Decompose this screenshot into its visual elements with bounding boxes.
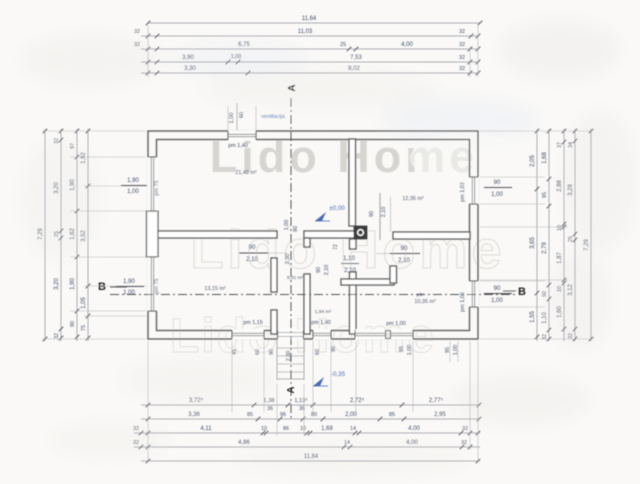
dimension chain bottom 5 (11,64) (141, 454, 480, 463)
svg-text:3,90: 3,90 (182, 55, 194, 61)
svg-text:2,79: 2,79 (542, 242, 548, 254)
svg-text:32: 32 (459, 42, 465, 48)
top window dimension lines (228, 103, 256, 130)
window mullion bottom-right (386, 331, 391, 339)
svg-text:10: 10 (557, 225, 563, 231)
svg-text:72: 72 (333, 244, 339, 250)
door D1 dimension line (268, 252, 287, 254)
left extension lines (42, 131, 146, 339)
svg-text:1,60: 1,60 (557, 306, 563, 318)
svg-text:8,02: 8,02 (348, 66, 360, 72)
window top (1,00 ventilation) (228, 130, 256, 141)
door frame line (hall to top-right room) (390, 197, 392, 232)
svg-text:80: 80 (311, 412, 317, 418)
svg-text:45: 45 (232, 349, 238, 355)
svg-text:1,00: 1,00 (127, 189, 139, 195)
left window 2 label (1,90/1,00) (116, 279, 144, 296)
svg-text:ventilacija: ventilacija (261, 114, 285, 120)
dimension chain left C (97/1,90/1,62/1,90/90) (70, 129, 79, 341)
interior wall V2 upper stub (corridor east wall) (304, 238, 310, 247)
door D2 label (90/2,10) (390, 246, 420, 264)
interior wall H1b (hall north wall) (304, 231, 356, 238)
svg-text:1,10: 1,10 (542, 312, 548, 324)
svg-text:2,05: 2,05 (530, 155, 536, 167)
svg-text:pm 1,15: pm 1,15 (243, 320, 262, 326)
svg-text:13,15 m²: 13,15 m² (204, 286, 225, 292)
svg-text:1,00: 1,00 (284, 220, 290, 231)
left wall pier between windows (147, 211, 159, 257)
svg-text:97: 97 (70, 143, 76, 149)
svg-text:90: 90 (401, 246, 408, 252)
svg-text:90: 90 (316, 267, 322, 273)
level marker -0,35 (blue) (313, 371, 346, 386)
entry threshold lines (278, 333, 304, 337)
svg-text:10: 10 (557, 286, 563, 292)
svg-text:1,94 m²: 1,94 m² (315, 309, 332, 315)
svg-text:85: 85 (399, 346, 405, 352)
interior wall V4 (hall/bottom-right door wall) (390, 266, 397, 283)
svg-text:96: 96 (280, 412, 286, 418)
svg-text:1,90: 1,90 (70, 278, 76, 290)
svg-text:86: 86 (283, 426, 289, 432)
svg-text:1,00: 1,00 (229, 113, 235, 124)
svg-text:11,03: 11,03 (298, 29, 313, 35)
svg-text:1,38: 1,38 (264, 398, 275, 404)
svg-text:2,88: 2,88 (557, 180, 563, 192)
svg-text:-0,35: -0,35 (331, 371, 346, 378)
window left lower (1,90/1,00) (147, 257, 158, 311)
svg-text:3,12: 3,12 (568, 284, 574, 296)
right window 2 label (90/1,00) (484, 286, 512, 304)
svg-text:1,87: 1,87 (557, 252, 563, 264)
svg-text:95: 95 (445, 347, 451, 353)
interior wall V2 lower (corridor east wall) (304, 274, 310, 334)
svg-text:9,31 m²: 9,31 m² (287, 275, 304, 281)
svg-text:pm 75: pm 75 (154, 278, 160, 293)
svg-text:4,00: 4,00 (401, 42, 413, 48)
level marker +-0,00 (blue) (315, 205, 345, 221)
svg-text:32: 32 (133, 426, 139, 432)
svg-text:pm 1,03: pm 1,03 (460, 182, 466, 202)
svg-text:32: 32 (459, 66, 465, 72)
svg-text:90: 90 (494, 286, 501, 292)
dimension chain bottom 4 (133, 440, 480, 449)
top extension line right outer (477, 25, 479, 77)
svg-text:10: 10 (261, 426, 267, 432)
door D2 dimension line (376, 253, 390, 255)
svg-text:1,55: 1,55 (530, 311, 536, 323)
svg-text:A: A (287, 84, 298, 91)
svg-text:32: 32 (133, 440, 139, 446)
svg-text:1,00: 1,00 (231, 54, 242, 60)
svg-text:2,77⁵: 2,77⁵ (429, 397, 444, 404)
svg-text:6,75: 6,75 (238, 42, 250, 48)
svg-text:1,05: 1,05 (81, 297, 87, 309)
svg-text:90: 90 (293, 226, 299, 232)
window bottom wc (pm 1,40) (313, 329, 331, 340)
svg-text:60: 60 (239, 112, 245, 118)
dimension chain right 5 (7,29) (584, 129, 593, 342)
svg-text:2,10: 2,10 (381, 207, 387, 218)
svg-text:pm 1,40: pm 1,40 (228, 143, 247, 149)
svg-text:95: 95 (542, 192, 548, 198)
exterior wall outer outline (148, 131, 478, 339)
svg-text:32: 32 (462, 426, 468, 432)
interior wall V1 lower (corridor west wall) (271, 310, 277, 334)
section line A (vertical dash-dot) (290, 98, 292, 420)
dimension chain right 1 (2,05/3,65/1,55) (530, 129, 539, 341)
section label B left stub (110, 286, 127, 288)
svg-text:32: 32 (134, 42, 140, 48)
svg-text:3,36: 3,36 (188, 412, 200, 418)
svg-text:2,95: 2,95 (434, 412, 446, 418)
svg-text:85: 85 (389, 412, 395, 418)
svg-text:1,68: 1,68 (542, 152, 548, 164)
dimension chain top 3 (6,75/25/4,00) (134, 42, 480, 51)
interior wall V1 upper (corridor west wall) (271, 258, 277, 292)
svg-text:A: A (286, 386, 297, 393)
svg-text:2,30: 2,30 (285, 254, 291, 265)
entry steps (277, 339, 304, 380)
svg-text:B: B (518, 286, 526, 298)
svg-text:7,53: 7,53 (350, 55, 362, 61)
svg-text:32: 32 (459, 55, 465, 61)
right extension lines (480, 131, 594, 339)
dimension chain right 4 (34/3,28/25/3,12/32) (568, 129, 577, 342)
svg-text:3,72⁵: 3,72⁵ (189, 397, 204, 404)
dimension chain bottom 1 (room widths) (141, 397, 481, 412)
svg-text:2,00: 2,00 (345, 412, 357, 418)
interior wall H3 (between top-right room and bottom-right room) (393, 232, 470, 239)
dimension chain top 1 (11,64) (146, 16, 483, 25)
exterior wall inner outline (157, 140, 470, 331)
svg-text:25: 25 (54, 231, 60, 237)
svg-text:1,90: 1,90 (127, 178, 139, 184)
dimension chain bottom 3 (133, 426, 480, 435)
svg-text:3,28: 3,28 (568, 184, 574, 196)
svg-text:32: 32 (568, 333, 574, 339)
scan highlight over watermark tail (410, 132, 520, 184)
svg-text:1,68: 1,68 (321, 426, 333, 432)
svg-text:1,00: 1,00 (123, 290, 135, 296)
svg-text:37: 37 (557, 142, 563, 148)
svg-text:90: 90 (269, 349, 275, 355)
section label B right stub (503, 290, 516, 292)
interior wall Vmid (between living room and top-right room) (349, 139, 356, 226)
svg-text:25: 25 (568, 236, 574, 242)
svg-text:34: 34 (568, 142, 574, 148)
svg-text:21,48 m²: 21,48 m² (235, 170, 256, 176)
svg-text:36: 36 (267, 406, 273, 412)
svg-text:90: 90 (70, 321, 76, 327)
svg-text:85: 85 (247, 412, 253, 418)
dimension chain left A (7,29) (38, 129, 47, 342)
svg-text:10,35 m²: 10,35 m² (414, 299, 435, 305)
window bottom-left (pm 1,15) (232, 329, 264, 340)
svg-text:1,90: 1,90 (70, 179, 76, 191)
svg-text:11,64: 11,64 (302, 16, 317, 22)
svg-text:10: 10 (300, 426, 306, 432)
door leaf line (hall to top-right room) (379, 193, 381, 240)
chimney flue block (354, 226, 367, 239)
dimension chain right 3 (37/2,88/10/1,87/10/1,60) (557, 129, 566, 341)
door D1 label (90/2,10) (239, 245, 268, 263)
svg-text:32: 32 (459, 29, 465, 35)
svg-text:32: 32 (461, 440, 467, 446)
svg-text:1,00: 1,00 (407, 345, 413, 356)
svg-text:2,30: 2,30 (286, 351, 292, 362)
svg-text:3,20: 3,20 (54, 182, 60, 194)
svg-text:25: 25 (340, 42, 346, 48)
interior wall H2 (wc south-east wall) (341, 279, 394, 285)
svg-text:60: 60 (315, 349, 321, 355)
svg-text:1,10: 1,10 (343, 256, 355, 262)
left window 1 label (1,90/1,00) (121, 178, 147, 195)
svg-text:4,00: 4,00 (406, 440, 418, 446)
svg-text:pm 1,00: pm 1,00 (386, 321, 405, 327)
svg-text:75: 75 (81, 325, 87, 331)
svg-text:1,00: 1,00 (453, 345, 459, 356)
bottom extension lines (148, 341, 478, 463)
window right upper (90/1,00) (468, 177, 479, 204)
top extension line right inner (469, 46, 471, 77)
svg-text:pm 1,40: pm 1,40 (311, 320, 330, 326)
svg-text:90: 90 (249, 245, 256, 251)
svg-text:1,00: 1,00 (491, 192, 503, 198)
svg-text:1,92: 1,92 (81, 152, 87, 164)
svg-text:32: 32 (54, 138, 60, 144)
svg-text:2,10: 2,10 (344, 268, 356, 274)
svg-text:3,52: 3,52 (81, 230, 87, 242)
dimension chain top 2 (11,03) (134, 29, 480, 38)
svg-text:1,90: 1,90 (123, 279, 135, 285)
svg-text:14: 14 (350, 426, 356, 432)
entry jamb right (302, 330, 304, 339)
entry opening (erase bottom wall) (278, 330, 304, 341)
svg-text:7,29: 7,29 (38, 228, 44, 240)
dimension chain bottom 2 (141, 412, 481, 421)
dimension chain right 2 (1,68/95/2,79/50/1,10/32) (542, 129, 551, 342)
svg-text:12,36 m²: 12,36 m² (402, 196, 423, 202)
svg-text:4,11: 4,11 (200, 426, 212, 432)
door D3 label (1,10/2,10) (341, 256, 359, 274)
svg-text:4,00: 4,00 (408, 426, 420, 432)
svg-text:90: 90 (369, 211, 375, 217)
interior wall V3 (wc east wall) (350, 239, 357, 249)
right window 1 label (90/1,00) (484, 180, 512, 198)
svg-text:1,00: 1,00 (491, 298, 503, 304)
svg-text:4,86: 4,86 (238, 440, 250, 446)
svg-text:32: 32 (134, 29, 140, 35)
interior wall H1 (between living room and bottom-left room) (156, 231, 277, 238)
entry jamb left (277, 330, 279, 339)
svg-text:90: 90 (331, 346, 337, 352)
svg-text:pšr: pšr (417, 292, 424, 298)
top extension line left (147, 25, 149, 77)
svg-text:B: B (98, 281, 106, 293)
dimension chain top 4 (3,90/1,00/7,53) (141, 54, 480, 64)
svg-text:1,13⁵: 1,13⁵ (294, 397, 307, 404)
svg-text:90: 90 (494, 180, 501, 186)
svg-text:3,65: 3,65 (530, 237, 536, 249)
svg-text:2,10: 2,10 (246, 257, 258, 263)
svg-text:1,62: 1,62 (70, 228, 76, 240)
window right lower (90/1,00) (468, 281, 479, 307)
svg-text:14: 14 (344, 440, 350, 446)
interior wall V3 lower (350, 272, 357, 334)
svg-text:32: 32 (54, 333, 60, 339)
svg-text:60: 60 (255, 349, 261, 355)
section line B (horizontal dash-dot) (110, 294, 516, 296)
svg-text:7,29: 7,29 (584, 239, 590, 251)
dimension chain top 5 (3,30/8,02) (141, 66, 480, 75)
window left upper (1,90/1,00) (147, 157, 158, 211)
svg-text:2,72⁵: 2,72⁵ (350, 397, 365, 404)
dimension chain left B (32/3,20/25/3,20/32) (54, 129, 63, 341)
svg-text:2,10: 2,10 (398, 258, 410, 264)
dimension chain left D (1,92/3,52/1,05/75) (81, 129, 90, 341)
svg-text:pm 75: pm 75 (154, 180, 160, 195)
window bottom-right (2,00 / pm 1,00) (355, 329, 413, 340)
svg-text:3,20: 3,20 (54, 278, 60, 290)
svg-text:3,30: 3,30 (184, 66, 196, 72)
svg-text:±0,00: ±0,00 (329, 205, 345, 212)
svg-text:11,64: 11,64 (304, 454, 319, 460)
svg-text:2,10: 2,10 (324, 265, 330, 276)
svg-text:50: 50 (542, 291, 548, 297)
svg-text:pm 1,00: pm 1,00 (460, 292, 466, 312)
